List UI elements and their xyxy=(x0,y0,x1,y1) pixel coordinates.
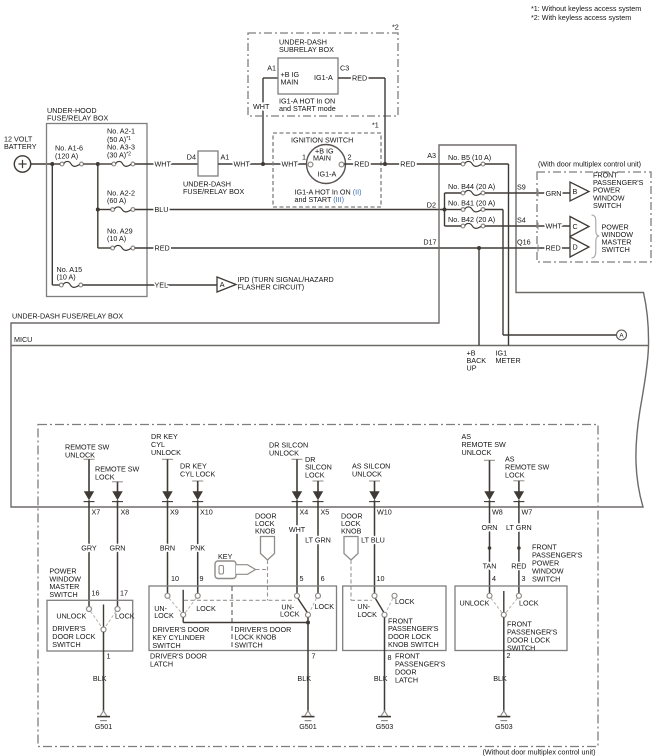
mechanical link key/knob to switches (driver) xyxy=(184,560,295,600)
svg-text:IG1-A: IG1-A xyxy=(318,169,337,178)
svg-text:C3: C3 xyxy=(340,63,349,72)
node RED junction at ignition output xyxy=(383,162,387,166)
svg-text:(120 A): (120 A) xyxy=(55,151,78,160)
svg-text:A: A xyxy=(220,280,225,289)
svg-text:D2: D2 xyxy=(427,200,436,209)
svg-text:No. B44 (20 A): No. B44 (20 A) xyxy=(448,182,495,191)
MICU box top edge xyxy=(11,335,648,346)
front passenger's door lock switch contacts xyxy=(460,591,558,652)
relay IG1-A (subrelay) xyxy=(267,58,349,113)
svg-text:WHT: WHT xyxy=(282,160,299,169)
svg-text:LATCH: LATCH xyxy=(150,659,173,668)
fuse B44 (20A) xyxy=(445,182,496,195)
ignition switch contacts xyxy=(302,145,352,184)
svg-text:WHT: WHT xyxy=(546,222,563,231)
svg-text:RED: RED xyxy=(155,244,170,253)
svg-text:KEY: KEY xyxy=(218,552,233,561)
svg-text:RED: RED xyxy=(511,561,526,570)
label +B BACK UP pin xyxy=(467,348,487,372)
wire WHT D4 to junction xyxy=(218,160,308,169)
label Q16 RED to switch D xyxy=(517,237,561,252)
svg-text:WHT: WHT xyxy=(289,525,306,534)
wire battery to fuse box xyxy=(31,163,53,165)
wire RED A29 to D17 xyxy=(135,237,479,252)
svg-text:LOCK: LOCK xyxy=(280,610,300,619)
svg-text:X5: X5 xyxy=(321,507,330,516)
svg-text:X8: X8 xyxy=(121,507,130,516)
wire BLU A2-2 to D2 xyxy=(135,200,445,214)
wire LT GRN X5 to pin6 xyxy=(305,507,331,593)
svg-text:GRN: GRN xyxy=(546,189,562,198)
svg-text:A1: A1 xyxy=(221,152,230,161)
svg-text:5: 5 xyxy=(300,574,304,583)
svg-text:FUSE/RELAY BOX: FUSE/RELAY BOX xyxy=(47,114,108,123)
svg-text:X4: X4 xyxy=(300,507,309,516)
svg-text:UNLOCK: UNLOCK xyxy=(65,450,95,459)
svg-text:FLASHER CIRCUIT): FLASHER CIRCUIT) xyxy=(238,283,305,292)
label IG1 METER pin xyxy=(496,348,521,365)
svg-text:*1: *1 xyxy=(372,120,379,129)
wire WHT up to subrelay A1 xyxy=(253,78,278,164)
ground G501 (driver's door lock switch) xyxy=(95,651,113,731)
MICU output X10 arrow xyxy=(180,461,215,516)
svg-text:WHT: WHT xyxy=(234,160,251,169)
svg-text:CYL LOCK: CYL LOCK xyxy=(180,469,215,478)
svg-text:KNOB SWITCH: KNOB SWITCH xyxy=(388,640,439,649)
svg-text:(Without door multiplex contro: (Without door multiplex control unit) xyxy=(482,747,595,756)
fuse A29 (10A) xyxy=(98,226,135,250)
svg-text:UNLOCK: UNLOCK xyxy=(462,448,492,457)
svg-text:GRY: GRY xyxy=(81,544,97,553)
power window master switch box xyxy=(47,567,133,651)
svg-text:SWITCH: SWITCH xyxy=(52,640,80,649)
under-dash subrelay box *2 xyxy=(248,22,399,116)
svg-text:C: C xyxy=(573,222,578,231)
driver's door lock knob switch xyxy=(234,593,334,649)
wire pin2 to ground xyxy=(493,617,510,683)
battery 12V xyxy=(4,134,37,172)
svg-text:UNLOCK: UNLOCK xyxy=(352,469,382,478)
svg-text:(With door multiplex control u: (With door multiplex control unit) xyxy=(538,159,641,168)
with-door-multiplex control unit box xyxy=(537,159,651,262)
brace power window master switch xyxy=(592,215,634,258)
svg-text:LOCK: LOCK xyxy=(95,472,115,481)
svg-text:UNLOCK: UNLOCK xyxy=(460,599,490,608)
node D2 junction xyxy=(443,208,447,212)
svg-text:W8: W8 xyxy=(492,507,503,516)
MICU output X5 arrow xyxy=(305,455,332,517)
svg-text:10: 10 xyxy=(171,574,179,583)
svg-text:G503: G503 xyxy=(376,722,394,731)
svg-text:8: 8 xyxy=(388,653,392,662)
svg-text:D17: D17 xyxy=(423,237,436,246)
buffer C xyxy=(570,217,589,237)
svg-text:A3: A3 xyxy=(427,151,436,160)
svg-text:*2: With keyless access system: *2: With keyless access system xyxy=(531,13,631,22)
svg-text:UNDER-DASH FUSE/RELAY BOX: UNDER-DASH FUSE/RELAY BOX xyxy=(12,311,123,320)
MICU output X4 arrow xyxy=(269,440,308,516)
svg-text:BATTERY: BATTERY xyxy=(4,142,37,151)
svg-text:and START (III): and START (III) xyxy=(295,195,345,204)
wire key cyl common to pin7 xyxy=(183,617,308,622)
svg-text:YEL: YEL xyxy=(155,281,169,290)
wire pin7 to ground xyxy=(297,617,315,683)
svg-text:LOCK: LOCK xyxy=(395,597,415,606)
svg-text:16: 16 xyxy=(92,589,100,598)
svg-text:UNLOCK: UNLOCK xyxy=(151,448,181,457)
under-dash fuse/relay box outline with torn edge xyxy=(11,145,649,507)
svg-text:TAN: TAN xyxy=(483,561,497,570)
front passenger's door lock knob switch contacts xyxy=(357,593,438,649)
under-hood fuse/relay box xyxy=(47,106,148,297)
connector A IPD turn signal circuit xyxy=(217,275,334,292)
svg-text:RED: RED xyxy=(400,160,415,169)
svg-text:6: 6 xyxy=(321,574,325,583)
svg-text:SWITCH: SWITCH xyxy=(593,201,621,210)
driver's door latch box xyxy=(149,574,337,669)
svg-text:SWITCH: SWITCH xyxy=(152,641,180,650)
svg-text:7: 7 xyxy=(312,651,316,660)
svg-text:17: 17 xyxy=(120,589,128,598)
svg-text:X9: X9 xyxy=(170,507,179,516)
svg-text:A1: A1 xyxy=(267,63,276,72)
fuse B5 (10A) xyxy=(439,153,509,166)
note *1/*2 keyless access legend xyxy=(531,4,641,22)
node A2-2 branch junction xyxy=(96,208,100,212)
wire branch down to A15 xyxy=(51,164,53,285)
svg-text:10: 10 xyxy=(377,574,385,583)
node WHT junction xyxy=(261,162,265,166)
svg-text:and START mode: and START mode xyxy=(279,104,336,113)
svg-text:LOCK: LOCK xyxy=(505,470,525,479)
node pin7 junction xyxy=(306,621,310,625)
wire D17 into box to Q16 xyxy=(479,247,570,249)
ground G501 (driver's door latch) xyxy=(299,651,317,731)
svg-text:BLU: BLU xyxy=(155,205,169,214)
wire LT BLU W10 to pin10 xyxy=(361,507,385,593)
wire RED ignition to A3 xyxy=(344,151,439,169)
svg-text:ORN: ORN xyxy=(482,523,498,532)
svg-text:LOCK: LOCK xyxy=(357,610,377,619)
svg-text:*2: *2 xyxy=(392,22,399,31)
svg-text:GRN: GRN xyxy=(110,544,126,553)
svg-text:W7: W7 xyxy=(522,507,533,516)
driver's door lock switch contacts xyxy=(52,605,134,649)
svg-text:IG1-A: IG1-A xyxy=(314,73,333,82)
wire B5 to IG1 METER pin xyxy=(508,164,510,346)
svg-text:S4: S4 xyxy=(517,215,526,224)
MICU output X8 arrow xyxy=(95,464,140,516)
svg-text:LOCK: LOCK xyxy=(315,602,335,611)
svg-text:KNOB: KNOB xyxy=(341,527,362,536)
svg-text:(10 A): (10 A) xyxy=(107,234,126,243)
svg-text:G503: G503 xyxy=(495,722,513,731)
svg-text:*1: Without keyless access sys: *1: Without keyless access system xyxy=(531,4,641,13)
ignition switch box *1 xyxy=(273,120,381,207)
ground G503 (front passenger's door latch) xyxy=(376,651,394,731)
svg-text:9: 9 xyxy=(200,574,204,583)
svg-text:1: 1 xyxy=(107,651,111,660)
wire S4 WHT to switch C xyxy=(485,215,570,230)
buffer B front passenger power window switch xyxy=(570,170,644,210)
mechanical link knob to switch (passenger) xyxy=(351,560,372,600)
svg-text:2: 2 xyxy=(348,152,352,161)
svg-text:LOCK: LOCK xyxy=(154,611,174,620)
svg-text:SUBRELAY BOX: SUBRELAY BOX xyxy=(279,45,334,54)
svg-text:X10: X10 xyxy=(200,507,213,516)
door lock knob symbol (driver) xyxy=(255,511,277,560)
svg-text:SWITCH: SWITCH xyxy=(507,643,535,652)
svg-text:SWITCH: SWITCH xyxy=(602,245,630,254)
svg-text:G501: G501 xyxy=(95,722,113,731)
svg-text:2: 2 xyxy=(507,651,511,660)
buffer D xyxy=(570,237,589,257)
wire branch D2 to B44/B42 xyxy=(444,193,446,226)
fuse A2-1/A3-3 xyxy=(100,126,135,166)
svg-text:W10: W10 xyxy=(377,507,392,516)
MICU output X9 arrow xyxy=(151,432,181,516)
key symbol xyxy=(215,552,256,579)
connector A circle xyxy=(617,330,627,340)
svg-text:BLK: BLK xyxy=(93,674,107,683)
svg-text:LATCH: LATCH xyxy=(395,675,418,684)
svg-text:RED: RED xyxy=(352,74,367,83)
wire branch down to A2-2/A29 xyxy=(97,164,99,248)
svg-text:Q16: Q16 xyxy=(517,237,531,246)
svg-text:G501: G501 xyxy=(299,722,317,731)
wire BRN X9 to pin10 xyxy=(160,507,175,593)
svg-text:D: D xyxy=(573,242,578,251)
svg-text:RED: RED xyxy=(354,160,369,169)
svg-text:SWITCH: SWITCH xyxy=(234,640,262,649)
wire +B BACKUP down to MICU xyxy=(478,248,480,346)
svg-text:B: B xyxy=(573,187,578,196)
svg-text:KNOB: KNOB xyxy=(255,527,276,536)
svg-text:LOCK: LOCK xyxy=(519,599,539,608)
front passenger's door lock knob switch box xyxy=(343,574,446,651)
MICU output X7 arrow xyxy=(65,442,110,516)
svg-text:(10 A): (10 A) xyxy=(57,273,76,282)
wire B41 to connector A xyxy=(485,210,617,336)
wire GRN X8 to pin17 xyxy=(110,507,126,607)
wire PNK X10 to pin9 xyxy=(190,507,205,593)
wire WHT X4 to pin5 xyxy=(289,507,306,593)
svg-text:S9: S9 xyxy=(517,182,526,191)
wire ORN/TAN W8 to pin4 xyxy=(482,507,498,593)
svg-text:(60 A): (60 A) xyxy=(107,196,126,205)
svg-text:(30 A)*2: (30 A)*2 xyxy=(107,150,131,159)
label IG1-A HOT in ON II xyxy=(295,187,362,204)
svg-text:WHT: WHT xyxy=(253,102,270,111)
MICU output W8 arrow xyxy=(462,432,507,517)
svg-text:BLK: BLK xyxy=(493,674,507,683)
fuse A15 (10A) xyxy=(52,265,82,287)
node main bus junction 1 xyxy=(50,162,54,166)
ground G503 (front passenger's door lock switch) xyxy=(495,651,513,731)
svg-text:D4: D4 xyxy=(187,152,196,161)
svg-text:METER: METER xyxy=(496,356,521,365)
svg-text:MAIN: MAIN xyxy=(313,154,331,163)
svg-text:BLK: BLK xyxy=(297,674,311,683)
MICU output W7 arrow xyxy=(505,455,550,517)
svg-text:3: 3 xyxy=(522,574,526,583)
MICU output W10 arrow xyxy=(352,461,392,516)
svg-text:LOCK: LOCK xyxy=(115,611,135,620)
svg-text:FUSE/RELAY BOX: FUSE/RELAY BOX xyxy=(183,187,244,196)
without-door-multiplex control unit box xyxy=(38,425,598,756)
svg-text:X7: X7 xyxy=(92,507,101,516)
svg-text:No. B41 (20 A): No. B41 (20 A) xyxy=(448,199,495,208)
svg-text:A: A xyxy=(619,333,624,340)
svg-text:LOCK: LOCK xyxy=(196,604,216,613)
wire WHT fuse box to D4 relay xyxy=(135,160,198,169)
svg-text:No. B42 (20 A): No. B42 (20 A) xyxy=(448,215,495,224)
fuse B41 (20A) xyxy=(447,199,496,212)
wire pin8 to ground xyxy=(374,617,446,684)
svg-text:LT BLU: LT BLU xyxy=(361,535,385,544)
wire LT GRN/RED W7 to pin3 xyxy=(506,507,532,593)
front passenger's door lock switch box xyxy=(455,542,583,650)
door lock knob symbol (passenger) xyxy=(341,511,363,560)
under-dash fuse/relay box D4-A1 xyxy=(183,151,244,196)
fuse B42 (20A) xyxy=(445,215,496,228)
svg-text:4: 4 xyxy=(492,574,496,583)
wire RED C3 down to ignition bus xyxy=(338,74,385,164)
wire YEL A15 to IPD xyxy=(83,281,217,290)
svg-text:UP: UP xyxy=(467,364,477,373)
wire GRY X7 to pin16 xyxy=(81,507,97,607)
svg-text:MAIN: MAIN xyxy=(281,77,299,86)
fuse A1-6 (120A) xyxy=(54,143,96,166)
svg-text:BLK: BLK xyxy=(374,674,388,683)
svg-text:MICU: MICU xyxy=(14,335,32,344)
svg-text:BRN: BRN xyxy=(160,544,175,553)
svg-text:LT GRN: LT GRN xyxy=(506,523,532,532)
svg-text:PNK: PNK xyxy=(190,544,205,553)
svg-text:SWITCH: SWITCH xyxy=(49,590,77,599)
svg-text:1: 1 xyxy=(302,152,306,161)
wire S9 GRN to switch B xyxy=(485,182,570,198)
svg-text:RED: RED xyxy=(546,244,561,253)
svg-text:IGNITION SWITCH: IGNITION SWITCH xyxy=(291,135,353,144)
svg-text:UNLOCK: UNLOCK xyxy=(269,448,299,457)
svg-text:LOCK: LOCK xyxy=(305,470,325,479)
svg-text:LT GRN: LT GRN xyxy=(305,535,331,544)
driver's door key cylinder switch xyxy=(152,590,216,650)
svg-text:SWITCH: SWITCH xyxy=(532,574,560,583)
node D17 junction xyxy=(477,246,481,250)
fuse A2-2 (60A) xyxy=(98,188,135,212)
svg-text:WHT: WHT xyxy=(155,160,172,169)
svg-text:No. B5 (10 A): No. B5 (10 A) xyxy=(448,153,491,162)
wire pin1 to ground xyxy=(93,632,111,683)
node main bus junction 2 xyxy=(96,162,100,166)
svg-text:UNLOCK: UNLOCK xyxy=(56,611,86,620)
